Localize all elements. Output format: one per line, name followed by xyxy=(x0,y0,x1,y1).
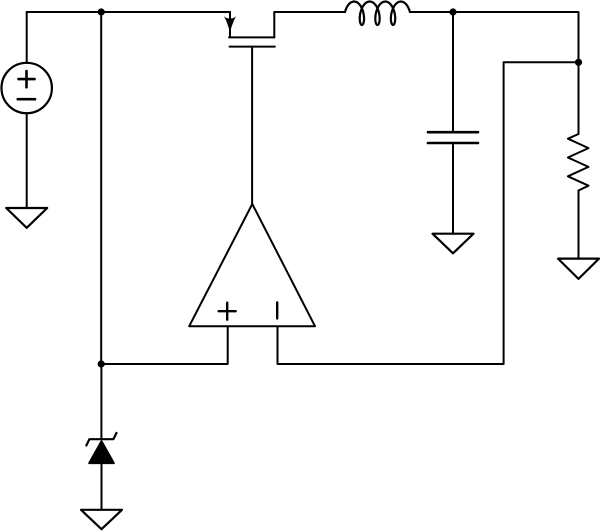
node A junction dot on top rail xyxy=(98,8,105,15)
op-amp U1 xyxy=(189,204,315,326)
node OUT junction dot xyxy=(449,8,456,15)
resistor R1 xyxy=(568,134,589,191)
ground below V1 xyxy=(6,208,47,228)
wire from FB dot down to resistor xyxy=(578,62,580,134)
wire from node A2 down to zener xyxy=(100,364,102,439)
zener diode D1 xyxy=(86,433,116,463)
wire from V1 bottom to ground xyxy=(26,113,28,208)
node FB junction dot xyxy=(575,59,582,66)
wire top rail from MOSFET drain to inductor xyxy=(274,11,345,13)
capacitor C1 xyxy=(428,132,478,143)
ground below C1 xyxy=(433,234,474,254)
wire op-amp plus input down and left to node A vertical xyxy=(101,327,228,364)
node A2 junction dot at feedback tap xyxy=(98,360,105,367)
ground below D1 xyxy=(81,510,122,529)
wire from inductor to output node dot xyxy=(410,11,453,13)
wire feedback from FB dot left and down to op-amp minus input xyxy=(278,62,579,364)
wire from resistor to ground xyxy=(578,191,580,259)
ground below R1 xyxy=(558,259,599,279)
inductor L1 xyxy=(345,2,410,26)
wire source lead down from top rail to voltage source xyxy=(26,12,28,63)
wire left vertical from node A down to feedback node xyxy=(100,12,102,364)
wire from zener anode to ground xyxy=(101,464,103,510)
transistor M1 (MOSFET, source arrow) xyxy=(224,12,275,56)
wire from capacitor to ground xyxy=(452,144,454,234)
wire top rail from output node to right edge corner xyxy=(453,12,579,62)
voltage source V1 xyxy=(2,63,52,113)
wire top rail from source to MOSFET source xyxy=(27,11,230,13)
wire op-amp output up to MOSFET gate xyxy=(251,56,253,204)
wire from output node down to capacitor xyxy=(452,12,454,131)
